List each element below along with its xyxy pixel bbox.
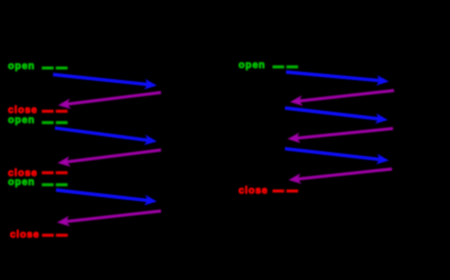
- open marker dashes 1 (left): [42, 67, 68, 70]
- client timeline (right diagram): [285, 56, 287, 250]
- open marker dashes (right): [273, 65, 299, 68]
- response arrow 2 (right diagram): [288, 129, 394, 144]
- close marker dashes (right): [273, 190, 299, 193]
- open marker dashes 2 (left): [42, 121, 68, 124]
- request arrow 2 (right diagram): [285, 108, 388, 124]
- close marker dashes 1 (left): [42, 110, 68, 113]
- svg-text:close: close: [239, 186, 269, 197]
- svg-text:open: open: [8, 115, 35, 126]
- response arrow 1 (left diagram, server to client): [58, 93, 161, 110]
- server timeline (right diagram): [389, 56, 391, 250]
- svg-text:open: open: [8, 61, 35, 72]
- svg-text:open: open: [239, 60, 266, 71]
- svg-text:client: client: [40, 44, 71, 55]
- request arrow 3 (left diagram): [56, 190, 157, 205]
- open marker dashes 3 (left): [42, 183, 68, 186]
- response arrow 3 (left diagram): [57, 211, 161, 226]
- server timeline (left diagram): [157, 56, 159, 250]
- client timeline (left diagram): [54, 56, 56, 250]
- svg-text:close: close: [10, 230, 40, 241]
- svg-text:server: server: [141, 44, 176, 55]
- response arrow 2 (left diagram): [58, 150, 162, 167]
- request arrow 3 (right diagram): [285, 149, 389, 165]
- close marker dashes 3 (left): [42, 234, 68, 237]
- svg-text:open: open: [8, 177, 35, 188]
- request arrow 1 (right diagram): [286, 72, 389, 86]
- svg-text:client: client: [271, 44, 302, 55]
- svg-text:persistent connection: persistent connection: [277, 22, 398, 33]
- svg-text:server: server: [373, 44, 408, 55]
- request arrow 1 (left diagram, client to server): [53, 75, 157, 90]
- response arrow 1 (right diagram): [290, 91, 394, 106]
- svg-text:multiple connections: multiple connections: [47, 22, 163, 33]
- close marker dashes 2 (left): [42, 171, 68, 174]
- request arrow 2 (left diagram): [55, 128, 157, 145]
- response arrow 3 (right diagram): [289, 169, 393, 184]
